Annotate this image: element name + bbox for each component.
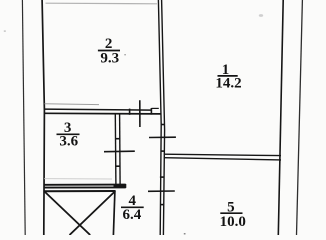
wire: room 3 bottom wall faint upper line bbox=[44, 178, 112, 180]
wire: faint inner line under room 2 bbox=[45, 103, 100, 106]
node label room 2 bbox=[98, 36, 120, 67]
node door D3 rung top bbox=[160, 176, 164, 178]
staircase right edge bbox=[113, 191, 115, 235]
node door D1 rung right bbox=[150, 108, 152, 115]
svg-text:3.6: 3.6 bbox=[59, 134, 78, 150]
node door D4 tick bbox=[104, 150, 135, 153]
node label room 3 bbox=[57, 120, 80, 150]
node label room 5 bbox=[220, 199, 246, 230]
node door D1 rung left bbox=[129, 109, 131, 115]
wire: room 3 bottom wall lower line bbox=[44, 186, 126, 188]
wire: outer left facade line bbox=[22, 0, 25, 235]
staircase diagonal 1 bbox=[45, 192, 90, 235]
node door D4 rung bottom bbox=[115, 165, 120, 167]
node scan speck top right bbox=[259, 14, 263, 17]
wire: outer right facade line bbox=[297, 0, 303, 235]
node scan speck left bbox=[4, 30, 6, 31]
wire: room 3 bottom wall end cap bbox=[125, 184, 127, 188]
wire: wall rooms2/3 upper line bbox=[44, 109, 152, 110]
node door D3 rung bottom bbox=[160, 204, 164, 206]
wire: room 3 bottom wall solid junction bbox=[114, 184, 126, 188]
wire: inner right wall bbox=[278, 0, 283, 235]
svg-text:10.0: 10.0 bbox=[220, 214, 246, 230]
wire: rooms 1/5 wall lower line bbox=[164, 158, 281, 160]
node label room 1 bbox=[215, 62, 241, 92]
staircase diagonal 2 bbox=[70, 192, 115, 235]
node label room 4 bbox=[121, 193, 144, 223]
svg-text:14.2: 14.2 bbox=[215, 76, 241, 92]
wire: room 3 right wall right line bbox=[119, 114, 122, 185]
svg-text:6.4: 6.4 bbox=[123, 207, 142, 223]
wire: rooms 1/5 wall upper line bbox=[164, 154, 281, 155]
wire: rooms 2/1 and corridor wall left line bbox=[158, 0, 161, 235]
node door D4 rung top bbox=[115, 138, 120, 140]
node door D2 tick bbox=[149, 136, 176, 138]
wire: rooms 2/1 and corridor wall right line bbox=[162, 0, 165, 235]
wire: wall rooms2/3 lower line bbox=[44, 112, 160, 115]
wire: wall rooms2/3 upper line jog bbox=[152, 107, 159, 109]
node door D1 tick bbox=[139, 100, 141, 127]
node scan speck bottom bbox=[184, 233, 186, 235]
node scan speck room 2 bbox=[124, 54, 126, 55]
wire: room 3 bottom wall upper line bbox=[44, 184, 126, 186]
wire: room 3 right wall left line bbox=[114, 114, 117, 185]
svg-text:9.3: 9.3 bbox=[100, 50, 119, 66]
node door D2 rung top bbox=[161, 124, 165, 126]
wire: main left wall bbox=[42, 0, 44, 235]
wire: top wall of room 2 (faint) bbox=[46, 2, 158, 5]
node door D2 rung bottom bbox=[161, 150, 165, 152]
staircase top edge bbox=[44, 190, 115, 192]
node door D3 tick bbox=[148, 190, 175, 192]
